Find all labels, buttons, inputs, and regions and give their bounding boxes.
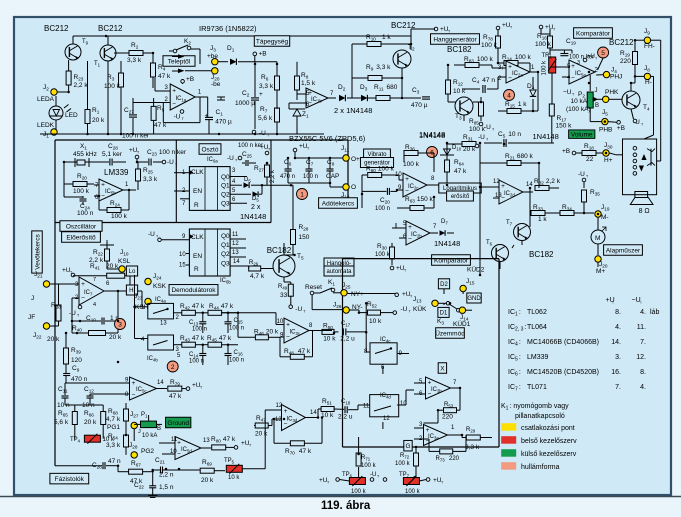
- svg-text:Üzemmód: Üzemmód: [435, 329, 465, 337]
- svg-text:+: +: [132, 380, 136, 387]
- svg-text:CAP: CAP: [326, 173, 339, 180]
- svg-text:12: 12: [383, 416, 390, 422]
- svg-text:TR1: TR1: [542, 53, 553, 60]
- svg-text:100 n ker: 100 n ker: [122, 133, 150, 140]
- svg-text:IC5a: IC5a: [575, 71, 586, 78]
- svg-text:LEDA: LEDA: [37, 96, 55, 103]
- svg-text:100 k: 100 k: [535, 41, 552, 48]
- svg-text:+B: +B: [617, 125, 625, 132]
- svg-text:150: 150: [299, 234, 310, 241]
- svg-text:T7: T7: [506, 220, 513, 227]
- svg-text:10 k: 10 k: [323, 336, 336, 343]
- svg-text:100 k: 100 k: [104, 83, 121, 90]
- svg-text:220: 220: [449, 456, 460, 462]
- svg-text:TP6: TP6: [342, 472, 353, 479]
- svg-text:CLK: CLK: [191, 234, 204, 241]
- svg-text:Hanggenerátor: Hanggenerátor: [433, 36, 477, 43]
- svg-text:14: 14: [310, 410, 317, 416]
- svg-text:R71: R71: [361, 455, 371, 462]
- svg-text:BC182: BC182: [447, 45, 472, 54]
- svg-text:12: 12: [276, 403, 283, 409]
- svg-text:2,2 n: 2,2 n: [159, 472, 174, 479]
- svg-text:13: 13: [275, 417, 282, 423]
- svg-text:14.: 14.: [611, 339, 621, 346]
- svg-text:11: 11: [171, 437, 178, 443]
- svg-text:P1: P1: [141, 412, 148, 419]
- svg-text:−: −: [501, 75, 505, 81]
- svg-text:4.: 4.: [640, 384, 646, 391]
- svg-text:hullámforma: hullámforma: [521, 464, 560, 471]
- svg-text:-U: -U: [148, 231, 155, 238]
- svg-text:LM339: LM339: [104, 168, 129, 177]
- svg-text:100 k: 100 k: [403, 161, 420, 168]
- svg-text:R60100 k: R60100 k: [366, 166, 395, 174]
- svg-text:-be: -be: [211, 81, 221, 88]
- svg-text:Q2: Q2: [221, 192, 230, 199]
- svg-text:455 kHz: 455 kHz: [73, 151, 97, 158]
- svg-text:+B: +B: [186, 76, 194, 83]
- svg-text:-U: -U: [227, 155, 234, 162]
- svg-text:IC5c: IC5c: [136, 387, 147, 394]
- svg-text:belső kezelőszerv: belső kezelőszerv: [521, 438, 577, 445]
- svg-text:100 k: 100 k: [111, 213, 128, 220]
- svg-text:4: 4: [507, 92, 511, 99]
- svg-text:470 n: 470 n: [71, 376, 88, 383]
- svg-text:100 k: 100 k: [361, 463, 377, 469]
- svg-text:IC5d: IC5d: [181, 447, 192, 454]
- svg-text:TL071: TL071: [527, 384, 547, 391]
- svg-text:3,3 k: 3,3 k: [259, 83, 274, 90]
- svg-text:+: +: [501, 183, 505, 190]
- svg-text:15: 15: [179, 263, 186, 269]
- svg-text:20 k: 20 k: [109, 334, 122, 341]
- svg-text:IC2d: IC2d: [504, 191, 515, 198]
- svg-text:J: J: [31, 295, 34, 302]
- svg-text:D7: D7: [441, 219, 448, 226]
- svg-text:C447 n: C447 n: [472, 77, 495, 85]
- svg-text:1 k: 1 k: [538, 216, 547, 223]
- svg-text:M: M: [595, 235, 600, 242]
- svg-text:+: +: [259, 91, 263, 98]
- svg-text:PG1: PG1: [107, 424, 120, 431]
- svg-text:IC7: IC7: [84, 290, 93, 297]
- svg-text:LED: LED: [65, 112, 78, 119]
- svg-text:Adótekercs: Adótekercs: [322, 200, 355, 207]
- svg-text:Osztó: Osztó: [202, 146, 219, 153]
- svg-text:120: 120: [71, 357, 82, 364]
- svg-text:R29: R29: [466, 427, 476, 434]
- svg-text:+: +: [508, 64, 512, 71]
- svg-text:100 n: 100 n: [189, 359, 204, 365]
- svg-text:-U: -U: [69, 310, 76, 317]
- svg-text:R93,3 k: R93,3 k: [366, 64, 391, 72]
- svg-text:150 k: 150 k: [556, 123, 573, 130]
- svg-text:7: 7: [93, 277, 96, 283]
- svg-text:PHB: PHB: [599, 127, 612, 134]
- svg-text:+U: +U: [587, 54, 595, 60]
- svg-text:3,3 k: 3,3 k: [106, 442, 121, 449]
- svg-text:TL064: TL064: [527, 324, 547, 331]
- svg-text:100 k: 100 k: [542, 60, 548, 76]
- svg-text:100 k: 100 k: [375, 252, 391, 258]
- svg-text:EN: EN: [193, 188, 202, 195]
- svg-text:100 n: 100 n: [229, 358, 244, 364]
- svg-text:C16: C16: [234, 350, 244, 357]
- svg-text:20 k: 20 k: [255, 431, 268, 438]
- svg-text:470 µ: 470 µ: [411, 102, 428, 109]
- svg-text:IC3d: IC3d: [287, 417, 298, 424]
- svg-text:20 k: 20 k: [84, 419, 97, 426]
- svg-text:100 n: 100 n: [375, 206, 390, 212]
- svg-text:C510 n: C510 n: [498, 131, 521, 139]
- svg-text:8 Ω: 8 Ω: [639, 208, 650, 215]
- svg-text:47 n: 47 n: [108, 458, 121, 465]
- svg-text:−U: −U: [632, 297, 641, 304]
- svg-text:−U: −U: [563, 89, 572, 96]
- svg-text:1,5 k: 1,5 k: [301, 80, 316, 87]
- svg-text:TP4: TP4: [70, 437, 81, 444]
- svg-text:7.: 7.: [640, 339, 646, 346]
- svg-text:R49: R49: [278, 284, 288, 291]
- svg-text:H-: H-: [645, 79, 652, 86]
- svg-text:2,2 k: 2,2 k: [74, 82, 89, 89]
- svg-text:100 k: 100 k: [395, 461, 411, 467]
- svg-text:-U: -U: [478, 134, 485, 141]
- svg-text:FH-: FH-: [644, 43, 655, 50]
- svg-text:Vevőtekercs: Vevőtekercs: [34, 234, 41, 270]
- svg-text:erősítő: erősítő: [451, 194, 470, 200]
- svg-text:LM339: LM339: [527, 354, 549, 361]
- svg-text:KÜD1: KÜD1: [453, 320, 471, 328]
- svg-text:pillanatkapcsoló: pillanatkapcsoló: [515, 413, 565, 420]
- svg-text:t: t: [613, 301, 614, 305]
- svg-text:−: −: [132, 391, 136, 398]
- svg-text:O+: O+: [351, 156, 360, 163]
- svg-text:X: X: [440, 365, 445, 372]
- svg-text:-U: -U: [578, 171, 585, 178]
- svg-text:Demodulátorok: Demodulátorok: [171, 287, 216, 294]
- svg-text:-U: -U: [401, 306, 408, 313]
- svg-text:IC6b: IC6b: [220, 278, 231, 285]
- svg-text:R63150 k: R63150 k: [405, 196, 434, 204]
- svg-text:D1: D1: [440, 311, 448, 317]
- svg-text:+B: +B: [562, 148, 570, 155]
- svg-text:Q2: Q2: [221, 251, 230, 258]
- svg-text:4.: 4.: [615, 324, 621, 331]
- svg-text:+: +: [284, 408, 288, 415]
- svg-text:14: 14: [233, 259, 240, 265]
- svg-text:3,3 k: 3,3 k: [143, 176, 158, 183]
- svg-text:B: B: [157, 426, 161, 432]
- svg-text:BC212: BC212: [98, 24, 123, 33]
- svg-text:+: +: [286, 321, 290, 328]
- svg-text:+: +: [571, 63, 575, 70]
- svg-text:-U: -U: [370, 472, 376, 478]
- svg-text:IC2c: IC2c: [408, 184, 419, 191]
- svg-text:4,7 k: 4,7 k: [106, 416, 121, 423]
- svg-text:KSL: KSL: [118, 258, 131, 265]
- svg-text:33: 33: [280, 292, 288, 299]
- svg-text:G: G: [405, 443, 410, 450]
- svg-text:1N4148: 1N4148: [533, 132, 559, 141]
- svg-text:R73: R73: [436, 456, 446, 463]
- svg-text:O: O: [351, 184, 356, 191]
- svg-text:10 kA: 10 kA: [571, 98, 588, 105]
- svg-text:3,3 k: 3,3 k: [127, 57, 142, 64]
- svg-text:LEDK: LEDK: [37, 122, 55, 129]
- svg-text:47 k: 47 k: [169, 393, 182, 400]
- svg-text:Q3: Q3: [221, 201, 230, 208]
- svg-text:100 k: 100 k: [351, 489, 367, 495]
- svg-text:TP5: TP5: [224, 458, 235, 465]
- svg-text:+: +: [501, 66, 505, 72]
- svg-text:R72: R72: [400, 453, 410, 460]
- svg-text:11: 11: [363, 404, 370, 410]
- svg-text:IC1a: IC1a: [176, 96, 187, 103]
- svg-text:KÜD2: KÜD2: [467, 266, 485, 274]
- svg-text:-U: -U: [295, 306, 302, 313]
- svg-text:1,5 n: 1,5 n: [159, 484, 174, 491]
- svg-text:20 k: 20 k: [47, 336, 60, 343]
- svg-text:automata: automata: [326, 269, 352, 275]
- svg-text:-U: -U: [174, 114, 181, 121]
- svg-text:TL062: TL062: [527, 309, 547, 316]
- svg-text:12: 12: [493, 179, 500, 185]
- svg-text:BZX55C 5V6 (ZPD5,6): BZX55C 5V6 (ZPD5,6): [289, 134, 366, 143]
- svg-text:3,3 k: 3,3 k: [465, 444, 480, 451]
- svg-text:+B: +B: [259, 51, 267, 58]
- svg-text:KSK: KSK: [153, 283, 167, 290]
- svg-text:+: +: [408, 224, 412, 231]
- svg-text:11: 11: [232, 232, 239, 238]
- svg-text:BC182: BC182: [267, 246, 292, 255]
- svg-text:100 k: 100 k: [481, 42, 498, 49]
- svg-text:10 kA: 10 kA: [142, 433, 157, 439]
- svg-text:IR9736 (1N5822): IR9736 (1N5822): [199, 24, 257, 33]
- svg-text:T1: T1: [94, 61, 101, 68]
- svg-text:16.: 16.: [611, 369, 621, 376]
- svg-text:M+: M+: [596, 268, 605, 275]
- svg-text:IC3c: IC3c: [290, 330, 301, 337]
- svg-text:5,6 k: 5,6 k: [54, 419, 69, 426]
- svg-text:+: +: [205, 113, 209, 120]
- svg-text:+: +: [101, 182, 105, 189]
- svg-text:10 k: 10 k: [228, 475, 240, 481]
- svg-text:−: −: [81, 295, 85, 302]
- svg-text:külső kezelőszerv: külső kezelőszerv: [521, 451, 577, 458]
- svg-text:3.: 3.: [615, 354, 621, 361]
- svg-text:220: 220: [620, 58, 631, 65]
- svg-text:R: R: [194, 202, 199, 209]
- svg-text:IC2a: IC2a: [512, 71, 523, 78]
- svg-text:100 n: 100 n: [229, 326, 244, 332]
- svg-text:PG2: PG2: [141, 448, 154, 455]
- svg-text:JF: JF: [28, 314, 35, 321]
- svg-text:PHJ: PHJ: [610, 74, 622, 81]
- svg-text:119. ábra: 119. ábra: [321, 500, 371, 512]
- svg-text:Q0: Q0: [221, 233, 230, 240]
- svg-text:EN: EN: [193, 253, 202, 260]
- svg-text:4,7 k: 4,7 k: [250, 273, 265, 280]
- svg-text:R4447 k: R4447 k: [209, 303, 234, 311]
- svg-text:1 k: 1 k: [382, 34, 391, 41]
- svg-text:1N4148: 1N4148: [240, 212, 266, 221]
- svg-text:3: 3: [577, 60, 580, 66]
- svg-text:20 k: 20 k: [201, 477, 214, 484]
- svg-text:47 k: 47 k: [158, 73, 171, 80]
- svg-text:+: +: [428, 380, 432, 387]
- svg-text:220: 220: [442, 414, 453, 421]
- svg-text:2 x: 2 x: [251, 204, 261, 211]
- svg-text:22: 22: [586, 156, 594, 163]
- svg-text:8.: 8.: [615, 309, 621, 316]
- svg-text:20 k: 20 k: [106, 263, 119, 270]
- svg-text:+: +: [405, 176, 409, 183]
- svg-text:T9: T9: [82, 39, 89, 46]
- svg-text:R21680 k: R21680 k: [505, 153, 534, 161]
- svg-text:GND: GND: [467, 296, 481, 302]
- svg-text:Előerősítő: Előerősítő: [66, 234, 96, 241]
- svg-text:+: +: [426, 427, 430, 434]
- svg-text:20 k: 20 k: [92, 117, 105, 124]
- svg-text:Volume: Volume: [571, 132, 593, 139]
- svg-text:IC5b: IC5b: [105, 189, 116, 196]
- svg-text:TP7: TP7: [399, 472, 410, 479]
- svg-text:8.: 8.: [640, 369, 646, 376]
- svg-text:Oszcillátor: Oszcillátor: [66, 223, 97, 230]
- svg-text:+: +: [81, 281, 85, 288]
- svg-text:IC4a: IC4a: [155, 297, 166, 304]
- svg-text:t: t: [641, 301, 642, 305]
- svg-text:+: +: [177, 439, 181, 446]
- svg-text:Lo: Lo: [129, 269, 136, 275]
- svg-text:Q1: Q1: [221, 183, 230, 190]
- svg-text:10 k: 10 k: [453, 88, 466, 95]
- svg-text:2 x 1N4148: 2 x 1N4148: [334, 106, 372, 115]
- svg-text:47 k: 47 k: [454, 168, 467, 175]
- svg-text:H+: H+: [604, 157, 613, 164]
- svg-text:J: J: [595, 88, 598, 94]
- svg-text:KÜK: KÜK: [413, 305, 427, 313]
- svg-text:BC212: BC212: [609, 38, 634, 47]
- svg-text:20 k: 20 k: [463, 146, 476, 153]
- svg-text:4.: 4.: [640, 309, 646, 316]
- svg-text:BC182: BC182: [529, 250, 554, 259]
- svg-text:MC14520B (CD4520B): MC14520B (CD4520B): [527, 369, 599, 376]
- svg-text:13: 13: [160, 321, 167, 327]
- svg-text:100 n: 100 n: [77, 210, 94, 217]
- svg-text:4: 4: [93, 302, 96, 308]
- svg-text:R4347 k: R4347 k: [180, 335, 205, 343]
- svg-text:D5: D5: [244, 177, 251, 184]
- svg-text:Fázistolók: Fázistolók: [55, 476, 85, 483]
- svg-text:13: 13: [232, 250, 239, 256]
- svg-text:+: +: [172, 88, 176, 95]
- svg-text:IC6a: IC6a: [207, 157, 218, 164]
- svg-text:Q1: Q1: [221, 242, 230, 249]
- svg-text:1: 1: [300, 191, 304, 198]
- svg-text:10: 10: [400, 401, 407, 407]
- svg-text:-U: -U: [484, 124, 491, 131]
- svg-text:10 k: 10 k: [369, 318, 382, 325]
- svg-text:Q0: Q0: [221, 174, 230, 181]
- svg-text:Teleptől: Teleptől: [168, 58, 191, 65]
- svg-text:IC2b: IC2b: [411, 232, 422, 239]
- svg-text:T6: T6: [486, 240, 493, 247]
- svg-text:1N4148: 1N4148: [419, 130, 445, 139]
- svg-text:14: 14: [157, 380, 164, 386]
- svg-text:IC4d: IC4d: [380, 393, 391, 400]
- svg-text:R7047 k: R7047 k: [285, 448, 312, 456]
- svg-text:13: 13: [203, 438, 210, 444]
- svg-text:NY+: NY+: [351, 291, 364, 298]
- svg-text:100 n: 100 n: [192, 327, 207, 333]
- svg-text:R4547 k: R4547 k: [207, 335, 232, 343]
- svg-text:IC3b: IC3b: [431, 387, 442, 394]
- svg-text:IC1b: IC1b: [311, 97, 322, 104]
- svg-text:R11680: R11680: [374, 84, 398, 92]
- svg-text:12: 12: [232, 241, 239, 247]
- svg-text:Ground: Ground: [167, 420, 189, 427]
- svg-text:2,2 k: 2,2 k: [270, 169, 276, 183]
- svg-text:R: R: [194, 266, 199, 273]
- svg-text:R4247 k: R4247 k: [180, 303, 205, 311]
- svg-text:1000 µ: 1000 µ: [235, 100, 255, 107]
- svg-text:IC3a: IC3a: [428, 434, 439, 441]
- svg-text:Q3: Q3: [221, 261, 230, 268]
- svg-text:R322,2 k: R322,2 k: [534, 178, 561, 186]
- svg-text:2,2 u: 2,2 u: [338, 414, 353, 421]
- svg-text:2: 2: [171, 364, 175, 371]
- svg-text:5,6 k: 5,6 k: [258, 115, 273, 122]
- svg-text:11.: 11.: [637, 324, 646, 331]
- svg-text:7.: 7.: [615, 384, 621, 391]
- svg-text:5,1 ker: 5,1 ker: [102, 151, 123, 158]
- svg-text:csatlakozási pont: csatlakozási pont: [521, 425, 575, 432]
- svg-text:R8047 k: R8047 k: [211, 436, 236, 444]
- svg-text:PHK: PHK: [605, 89, 619, 96]
- svg-text:3: 3: [118, 321, 122, 328]
- svg-text:Reset: Reset: [305, 284, 322, 291]
- svg-text:Komparátor: Komparátor: [576, 30, 611, 37]
- svg-text:(100 kA): (100 kA): [566, 106, 591, 113]
- svg-text:MC14066B (CD4066B): MC14066B (CD4066B): [527, 339, 599, 346]
- svg-text:láb: láb: [650, 309, 659, 316]
- svg-text:1N4148: 1N4148: [434, 239, 460, 248]
- svg-text:D10: D10: [452, 145, 462, 152]
- svg-text:D2: D2: [440, 282, 448, 288]
- svg-text:Alapműszer: Alapműszer: [606, 247, 641, 254]
- svg-text:Tápegység: Tápegység: [256, 38, 289, 45]
- svg-text:-U: -U: [167, 159, 174, 166]
- svg-text:470 µ: 470 µ: [215, 119, 232, 126]
- svg-text:100 k: 100 k: [405, 489, 421, 495]
- svg-text:B: B: [595, 103, 599, 109]
- svg-text:5: 5: [601, 50, 605, 57]
- svg-text:100 k: 100 k: [73, 188, 90, 195]
- svg-text:BC212: BC212: [44, 24, 69, 33]
- svg-text:100 n: 100 n: [303, 174, 318, 180]
- svg-text:IC4b: IC4b: [147, 356, 158, 363]
- svg-text:10: 10: [395, 172, 402, 178]
- svg-text:10: 10: [179, 252, 186, 258]
- svg-text:J: J: [138, 429, 141, 435]
- svg-text:M-: M-: [601, 214, 609, 221]
- svg-text:IC4c: IC4c: [380, 337, 391, 344]
- svg-text:12.: 12.: [636, 354, 646, 361]
